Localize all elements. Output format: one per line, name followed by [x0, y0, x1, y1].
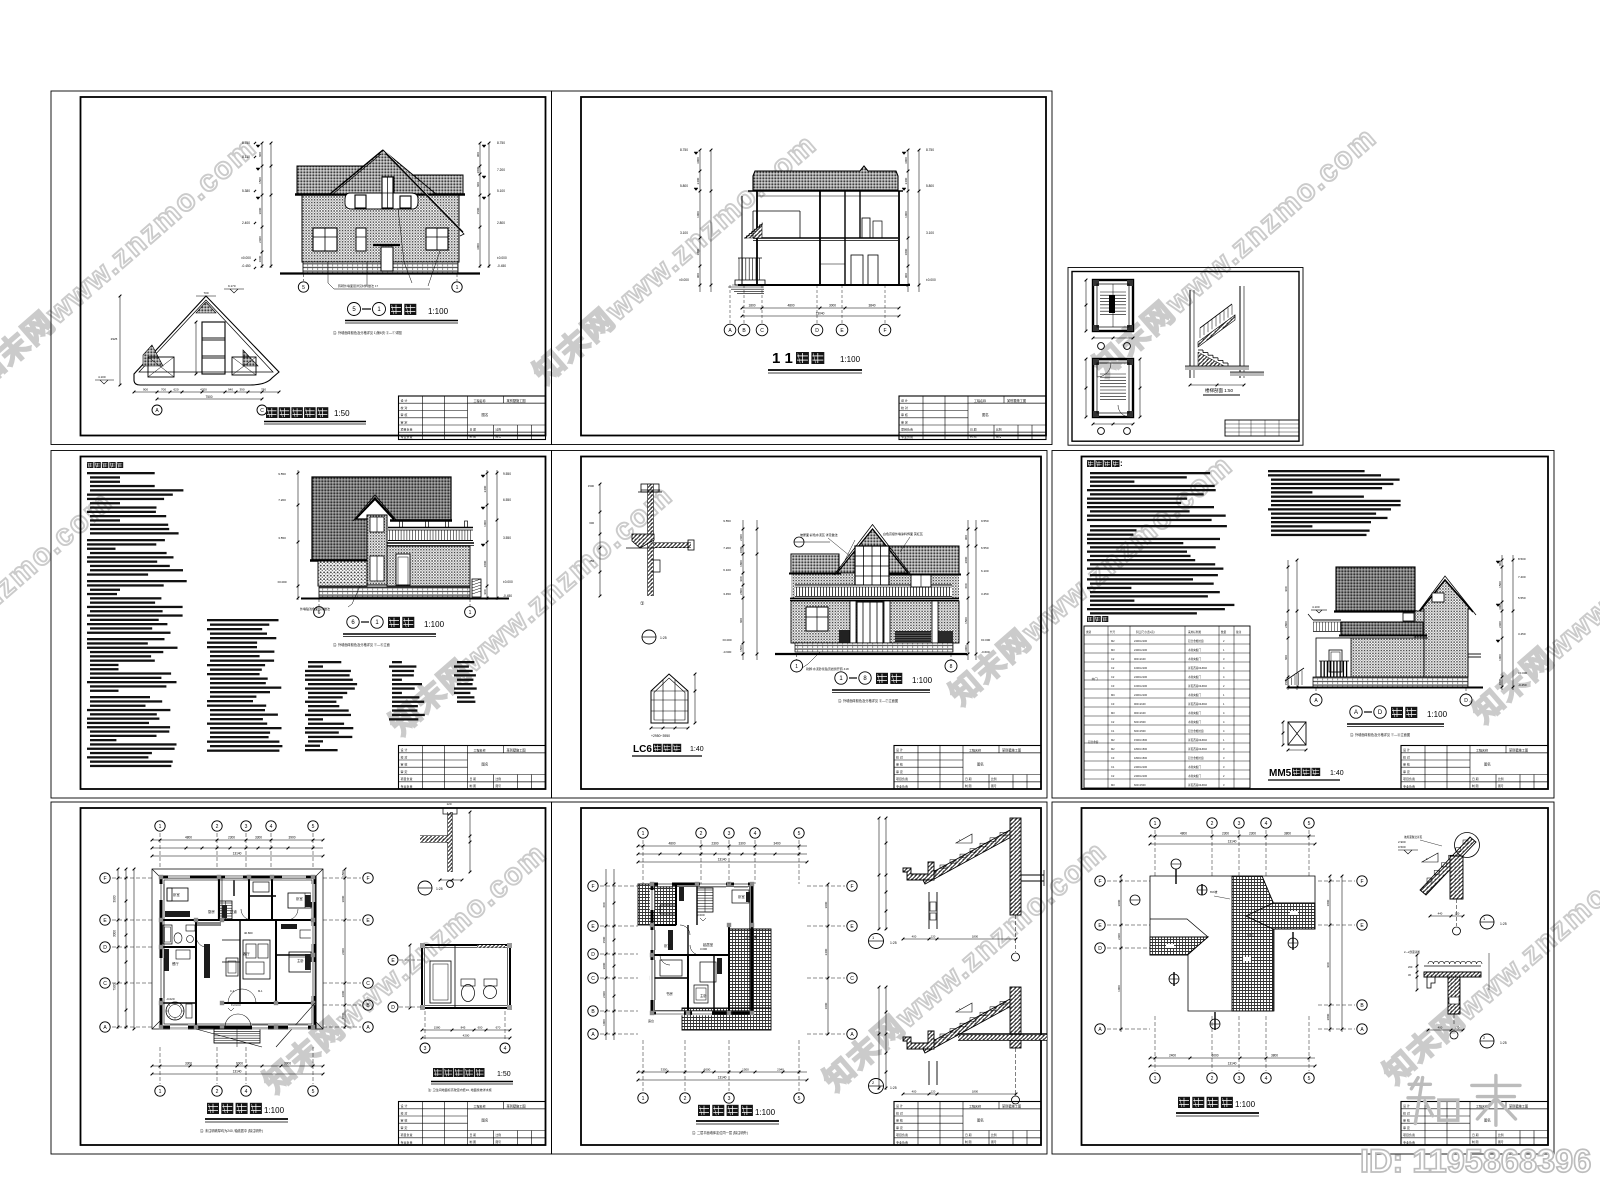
svg-text:-0.450: -0.450 — [241, 264, 250, 268]
svg-text:2800: 2800 — [1284, 621, 1288, 628]
svg-text:3300: 3300 — [738, 842, 745, 846]
svg-text:+2950~3950: +2950~3950 — [651, 734, 670, 738]
svg-text:起居室: 起居室 — [703, 942, 714, 947]
svg-text:3000: 3000 — [113, 930, 117, 937]
svg-text:D: D — [1464, 698, 1468, 704]
svg-text:审 核: 审 核 — [401, 412, 408, 417]
svg-text:1000: 1000 — [602, 1019, 606, 1026]
svg-text:木门: 木门 — [1092, 676, 1098, 681]
svg-text:1000: 1000 — [341, 990, 345, 997]
svg-text:9.550: 9.550 — [981, 519, 989, 523]
svg-text:2800: 2800 — [739, 588, 743, 595]
svg-text:审 定: 审 定 — [896, 769, 903, 774]
svg-text:1: 1 — [159, 1089, 162, 1095]
svg-text:1: 1 — [159, 824, 162, 830]
svg-text:3.450: 3.450 — [1518, 632, 1526, 636]
svg-text:5: 5 — [312, 1089, 315, 1095]
svg-text:±0.000: ±0.000 — [1518, 671, 1527, 675]
svg-text:1580: 1580 — [434, 1026, 441, 1030]
svg-text:3: 3 — [424, 1046, 427, 1052]
svg-text:3900: 3900 — [113, 895, 117, 902]
svg-text:项目负责: 项目负责 — [901, 427, 913, 432]
svg-text:砖砌外墙面层详见材料做法 17: 砖砌外墙面层详见材料做法 17 — [338, 283, 379, 288]
svg-text:工程名称: 工程名称 — [474, 1103, 486, 1108]
svg-text:比例: 比例 — [996, 427, 1002, 431]
svg-text:1:25: 1:25 — [1500, 922, 1507, 926]
svg-text:C3: C3 — [1111, 684, 1115, 688]
svg-text:120: 120 — [931, 1090, 936, 1094]
svg-text:铝合金推拉窗: 铝合金推拉窗 — [1188, 639, 1204, 643]
svg-text:2: 2 — [216, 1089, 219, 1095]
svg-text:详见西南04J602: 详见西南04J602 — [1188, 666, 1207, 670]
svg-text:8: 8 — [950, 664, 953, 670]
svg-text:±0.000: ±0.000 — [679, 278, 689, 282]
svg-text:详见西南04J602: 详见西南04J602 — [1188, 747, 1207, 751]
svg-text:440: 440 — [1438, 912, 1443, 916]
svg-text:6000: 6000 — [1211, 1054, 1218, 1058]
svg-text:外墙贴浅色面砖详做法: 外墙贴浅色面砖详做法 — [300, 606, 330, 611]
svg-text:3000: 3000 — [964, 645, 968, 652]
svg-text:3.100: 3.100 — [680, 231, 688, 235]
svg-text:2400×2100: 2400×2100 — [1134, 639, 1148, 643]
svg-text:数量: 数量 — [1221, 630, 1227, 634]
svg-text:F: F — [366, 876, 369, 882]
svg-text:6.550: 6.550 — [981, 546, 989, 550]
svg-text:1800: 1800 — [739, 560, 743, 567]
svg-text:MM5: MM5 — [1269, 768, 1292, 779]
svg-text:比例: 比例 — [1498, 777, 1504, 781]
svg-text:C2: C2 — [1111, 666, 1115, 670]
svg-text:1:100: 1:100 — [264, 1106, 285, 1115]
svg-text:餐厅: 餐厅 — [172, 961, 179, 966]
svg-text:7900: 7900 — [113, 983, 117, 990]
svg-text:项目负责: 项目负责 — [1403, 1132, 1415, 1137]
svg-text:2800: 2800 — [476, 166, 480, 173]
svg-text:2300: 2300 — [1249, 832, 1256, 836]
svg-text:3840: 3840 — [868, 304, 875, 308]
svg-text:±0.000: ±0.000 — [722, 638, 731, 642]
svg-text:2400: 2400 — [483, 485, 487, 492]
svg-text:某别墅施工图: 某别墅施工图 — [507, 398, 526, 403]
svg-text:620: 620 — [173, 388, 178, 392]
svg-text:图名: 图名 — [977, 1117, 984, 1122]
svg-text:专业负责: 专业负责 — [901, 434, 913, 439]
svg-text:1800: 1800 — [1326, 899, 1330, 906]
svg-text:设 计: 设 计 — [896, 747, 903, 752]
svg-text:1: 1 — [795, 664, 798, 670]
svg-text:780: 780 — [261, 388, 266, 392]
svg-text:2: 2 — [216, 824, 219, 830]
svg-text:上人屋面: 上人屋面 — [745, 934, 757, 939]
svg-text:D: D — [1098, 946, 1102, 952]
svg-text:1800×1500: 1800×1500 — [1134, 747, 1148, 751]
svg-text:3400: 3400 — [773, 842, 780, 846]
svg-text:类别: 类别 — [1086, 630, 1092, 634]
svg-text:900: 900 — [739, 576, 743, 581]
svg-text:过道: 过道 — [230, 909, 237, 914]
svg-text:详见西南04J602: 详见西南04J602 — [1188, 738, 1207, 742]
svg-text:M-1: M-1 — [258, 989, 263, 993]
svg-text:详见西南04J602: 详见西南04J602 — [1188, 783, 1207, 787]
svg-text:木制夹板门: 木制夹板门 — [1188, 711, 1201, 715]
svg-text:项目负责: 项目负责 — [401, 1132, 413, 1137]
svg-text:专业负责: 专业负责 — [401, 783, 413, 788]
svg-text:设 计: 设 计 — [1403, 747, 1410, 752]
svg-text:图号: 图号 — [496, 784, 502, 788]
svg-text:C: C — [591, 976, 595, 982]
svg-text:13140: 13140 — [718, 858, 727, 862]
svg-text:校 对: 校 对 — [901, 405, 908, 410]
svg-text:注: 外墙面砖颜色及分格详见 ①—⑧立面图: 注: 外墙面砖颜色及分格详见 ①—⑧立面图 — [1350, 732, 1410, 737]
svg-text:2400: 2400 — [258, 236, 262, 243]
svg-text:3.450: 3.450 — [723, 592, 731, 596]
svg-text:5: 5 — [312, 824, 315, 830]
svg-text:7.200: 7.200 — [497, 168, 505, 172]
svg-text:图号: 图号 — [991, 784, 997, 788]
svg-text:校 对: 校 对 — [1403, 1110, 1410, 1115]
svg-text:F: F — [1098, 879, 1101, 885]
svg-text:M2: M2 — [1111, 738, 1115, 742]
svg-text:图名: 图名 — [482, 761, 489, 766]
svg-text:1800: 1800 — [904, 248, 908, 255]
svg-text:200: 200 — [1408, 965, 1413, 969]
svg-text:2400: 2400 — [904, 177, 908, 184]
svg-text:代号: 代号 — [1110, 630, 1116, 634]
svg-text:图名: 图名 — [482, 412, 489, 417]
svg-text:1800: 1800 — [748, 304, 755, 308]
svg-text:审 核: 审 核 — [896, 762, 903, 767]
svg-text:工程名称: 工程名称 — [1476, 747, 1488, 752]
svg-text:1: 1 — [1154, 1076, 1157, 1082]
svg-text:审 定: 审 定 — [1403, 1125, 1410, 1130]
svg-text:某别墅施工图: 某别墅施工图 — [1007, 398, 1026, 403]
svg-text:600: 600 — [589, 521, 594, 525]
svg-text:6.100: 6.100 — [723, 568, 731, 572]
svg-text:厨房: 厨房 — [208, 909, 215, 914]
svg-text:图名: 图名 — [977, 761, 984, 766]
svg-text:3.550: 3.550 — [503, 536, 511, 540]
svg-text:900: 900 — [696, 273, 700, 278]
svg-text:3: 3 — [245, 824, 248, 830]
svg-text:下水口: 下水口 — [1246, 933, 1255, 937]
svg-text:1000: 1000 — [483, 520, 487, 527]
svg-text:校 对: 校 对 — [401, 1110, 408, 1115]
svg-text:4.100: 4.100 — [98, 375, 106, 379]
svg-text:7500: 7500 — [205, 395, 212, 399]
svg-text:8.500: 8.500 — [1518, 557, 1526, 561]
svg-text:审 定: 审 定 — [1403, 769, 1410, 774]
svg-text:1:100: 1:100 — [912, 676, 933, 685]
svg-text:2400×2100: 2400×2100 — [1134, 675, 1148, 679]
svg-text:审 核: 审 核 — [901, 412, 908, 417]
svg-text:1:40: 1:40 — [690, 746, 704, 753]
svg-text:400: 400 — [1438, 1026, 1443, 1030]
svg-text:-0.450: -0.450 — [503, 594, 512, 598]
svg-text:日 期: 日 期 — [470, 777, 477, 781]
svg-text:3900: 3900 — [284, 1062, 291, 1066]
svg-text:1000×2100: 1000×2100 — [1134, 684, 1148, 688]
svg-text:600×1500: 600×1500 — [1134, 729, 1146, 733]
svg-text:120: 120 — [1455, 912, 1460, 916]
svg-text:设 计: 设 计 — [401, 398, 408, 403]
svg-text:审 定: 审 定 — [901, 419, 908, 424]
svg-text:校 对: 校 对 — [896, 1110, 903, 1115]
svg-text:1:25: 1:25 — [890, 1086, 897, 1090]
svg-text:C2: C2 — [1111, 657, 1115, 661]
svg-text:比例: 比例 — [496, 1133, 502, 1137]
svg-text:制 图: 制 图 — [470, 784, 477, 788]
svg-text:1800: 1800 — [1498, 678, 1502, 685]
svg-text:1: 1 — [642, 831, 645, 837]
svg-text:D: D — [391, 1005, 395, 1011]
svg-text:1500: 1500 — [258, 177, 262, 184]
svg-text:审 核: 审 核 — [401, 762, 408, 767]
svg-text:审 定: 审 定 — [896, 1125, 903, 1130]
svg-text:C: C — [260, 408, 264, 414]
svg-text:1000: 1000 — [904, 211, 908, 218]
svg-text:3000: 3000 — [1117, 899, 1121, 906]
svg-text:卧室: 卧室 — [296, 896, 303, 901]
svg-text:1: 1 — [1154, 821, 1157, 827]
svg-text:1:100: 1:100 — [1235, 1100, 1256, 1109]
svg-text:6.100: 6.100 — [981, 569, 989, 573]
svg-text:校 对: 校 对 — [1403, 754, 1410, 759]
svg-text:1800: 1800 — [972, 935, 979, 939]
svg-text:某别墅施工图: 某别墅施工图 — [1509, 747, 1528, 752]
svg-text:LC6: LC6 — [633, 744, 652, 755]
svg-text:1:100: 1:100 — [755, 1108, 776, 1117]
svg-text:3000: 3000 — [696, 157, 700, 164]
svg-text:设 计: 设 计 — [901, 398, 908, 403]
svg-text:项目负责: 项目负责 — [401, 427, 413, 432]
svg-text:1500: 1500 — [739, 645, 743, 652]
svg-text:13140: 13140 — [1228, 840, 1237, 844]
svg-text:670: 670 — [496, 1026, 501, 1030]
svg-text:C3: C3 — [1111, 702, 1115, 706]
svg-text:4800: 4800 — [787, 304, 794, 308]
svg-text:1500×1500: 1500×1500 — [1134, 738, 1148, 742]
svg-text:4.100: 4.100 — [1312, 605, 1320, 609]
svg-text:8.750: 8.750 — [242, 141, 250, 145]
svg-text:1500: 1500 — [588, 484, 595, 488]
svg-text:注: 外墙面砖颜色及分格详见 ②—⑦立面图: 注: 外墙面砖颜色及分格详见 ②—⑦立面图 — [838, 698, 898, 703]
svg-text:铝合金窗: 铝合金窗 — [1088, 740, 1099, 744]
svg-text:9.550: 9.550 — [503, 472, 511, 476]
svg-text:2300: 2300 — [228, 836, 235, 840]
svg-text::: : — [1120, 459, 1123, 468]
svg-text:D: D — [591, 952, 595, 958]
svg-text:C1: C1 — [1111, 729, 1115, 733]
svg-text:审 定: 审 定 — [401, 419, 408, 424]
svg-text:校 对: 校 对 — [896, 754, 903, 759]
svg-text:1:25: 1:25 — [1500, 1041, 1507, 1045]
svg-text:C2: C2 — [1111, 675, 1115, 679]
svg-text:±0.000: ±0.000 — [231, 1003, 241, 1007]
svg-text:制 图: 制 图 — [970, 435, 977, 439]
svg-text:3.000: 3.000 — [700, 947, 707, 951]
svg-text:9.550: 9.550 — [723, 519, 731, 523]
svg-text:审 核: 审 核 — [1403, 1118, 1410, 1123]
svg-text:勒脚:水泥砂浆贴页岩劈开砖 418: 勒脚:水泥砂浆贴页岩劈开砖 418 — [806, 666, 849, 671]
svg-text:F: F — [850, 884, 853, 890]
svg-text:5: 5 — [1308, 1076, 1311, 1082]
svg-text:图号: 图号 — [496, 1140, 502, 1144]
svg-text:图号: 图号 — [991, 1140, 997, 1144]
svg-text:9.170: 9.170 — [228, 284, 236, 288]
svg-text:900: 900 — [1326, 962, 1330, 967]
svg-text:900: 900 — [483, 589, 487, 594]
svg-text:工程名称: 工程名称 — [474, 747, 486, 752]
svg-text:2400: 2400 — [739, 534, 743, 541]
svg-text:2925: 2925 — [111, 337, 118, 341]
svg-text:4800: 4800 — [185, 836, 192, 840]
svg-text:13140: 13140 — [233, 1070, 242, 1074]
svg-text:比例: 比例 — [496, 777, 502, 781]
svg-text:注: 外墙面砖颜色及分格详见 ①—⑥立面: 注: 外墙面砖颜色及分格详见 ①—⑥立面 — [333, 642, 390, 647]
svg-text:某别墅施工图: 某别墅施工图 — [1002, 1103, 1021, 1108]
svg-text:图名: 图名 — [982, 412, 989, 417]
svg-text:日 期: 日 期 — [1472, 777, 1479, 781]
svg-text:某别墅施工图: 某别墅施工图 — [1509, 1103, 1528, 1108]
svg-text:比例: 比例 — [991, 777, 997, 781]
svg-text:D: D — [815, 328, 819, 334]
svg-text:3300: 3300 — [185, 1062, 192, 1066]
svg-text:注: 外墙面砖颜色及分格详见 1)第6页 ②—①详图: 注: 外墙面砖颜色及分格详见 1)第6页 ②—①详图 — [333, 330, 402, 335]
svg-text:1800: 1800 — [696, 248, 700, 255]
svg-text:600: 600 — [602, 902, 606, 907]
svg-text:5.380: 5.380 — [242, 189, 250, 193]
svg-text:M3: M3 — [1111, 711, 1115, 715]
svg-text:600: 600 — [476, 182, 480, 187]
svg-text:制 图: 制 图 — [470, 435, 477, 439]
svg-text:-0.600: -0.600 — [981, 650, 990, 654]
svg-text:2—2剖面详图: 2—2剖面详图 — [1404, 950, 1420, 954]
svg-text:工程名称: 工程名称 — [969, 1103, 981, 1108]
svg-text:600: 600 — [478, 1026, 483, 1030]
svg-text:比例: 比例 — [991, 1133, 997, 1137]
svg-text:坡屋面做法详见: 坡屋面做法详见 — [1404, 835, 1423, 839]
svg-text:900: 900 — [476, 152, 480, 157]
svg-text:4: 4 — [504, 1046, 507, 1052]
svg-text:2300: 2300 — [1222, 832, 1229, 836]
svg-text:2.400: 2.400 — [242, 221, 250, 225]
svg-text:2.800: 2.800 — [497, 221, 505, 225]
svg-text:2400×2100: 2400×2100 — [1134, 765, 1148, 769]
svg-text:MC: MC — [1111, 693, 1115, 697]
svg-text:-0.450: -0.450 — [1518, 683, 1527, 687]
svg-text:1500: 1500 — [341, 870, 345, 877]
svg-text:木制夹板门: 木制夹板门 — [1188, 774, 1201, 778]
svg-text:日 期: 日 期 — [1472, 1133, 1479, 1137]
svg-text:1000: 1000 — [739, 546, 743, 553]
svg-text:7.400: 7.400 — [1518, 575, 1526, 579]
svg-text:2: 2 — [1211, 821, 1214, 827]
svg-text:项目负责: 项目负责 — [401, 776, 413, 781]
svg-text:1 1: 1 1 — [772, 350, 793, 367]
svg-text:700: 700 — [161, 388, 166, 392]
svg-text:日 期: 日 期 — [470, 1133, 477, 1137]
svg-text:3000: 3000 — [602, 962, 606, 969]
svg-text:6%坡: 6%坡 — [1210, 889, 1217, 894]
svg-text:制 图: 制 图 — [965, 784, 972, 788]
svg-text:600: 600 — [964, 583, 968, 588]
svg-text:专业负责: 专业负责 — [896, 1139, 908, 1144]
svg-text:专业负责: 专业负责 — [896, 783, 908, 788]
svg-text:C-2: C-2 — [230, 989, 235, 993]
svg-text:1:25: 1:25 — [660, 636, 667, 640]
svg-text:比例: 比例 — [496, 427, 502, 431]
svg-text:1:40: 1:40 — [1330, 770, 1344, 777]
svg-text:3000: 3000 — [904, 157, 908, 164]
svg-text:F: F — [1360, 879, 1363, 885]
svg-text:5.800: 5.800 — [680, 184, 688, 188]
svg-text:1500: 1500 — [602, 936, 606, 943]
svg-text:3300: 3300 — [255, 836, 262, 840]
svg-text:1500: 1500 — [742, 1068, 749, 1072]
svg-text:楼梯剖面 1:50: 楼梯剖面 1:50 — [1205, 387, 1234, 394]
svg-text:备注: 备注 — [1236, 630, 1242, 634]
svg-text:3: 3 — [728, 831, 731, 837]
svg-text:900×2100: 900×2100 — [1134, 711, 1146, 715]
svg-text:项目负责: 项目负责 — [896, 776, 908, 781]
svg-text:120: 120 — [446, 802, 451, 806]
svg-text:1000×2100: 1000×2100 — [1134, 666, 1148, 670]
svg-text:8.750: 8.750 — [680, 148, 688, 152]
svg-text:卧室: 卧室 — [173, 892, 180, 897]
svg-text:工程名称: 工程名称 — [474, 398, 486, 403]
svg-text:4: 4 — [245, 1089, 248, 1095]
svg-text:1: 1 — [456, 285, 459, 291]
svg-text:木制夹板门: 木制夹板门 — [1188, 765, 1201, 769]
svg-text:4: 4 — [1265, 821, 1268, 827]
svg-text:审 核: 审 核 — [401, 1118, 408, 1123]
svg-text:5.800: 5.800 — [926, 184, 934, 188]
svg-text:900×2100: 900×2100 — [1134, 702, 1146, 706]
svg-text:1800: 1800 — [341, 1012, 345, 1019]
svg-text:9.550: 9.550 — [278, 472, 286, 476]
svg-text:C1: C1 — [1111, 765, 1115, 769]
svg-text:日 期: 日 期 — [470, 427, 477, 431]
svg-text:2040: 2040 — [777, 1068, 784, 1072]
svg-text:13140: 13140 — [718, 1076, 727, 1080]
svg-text:8.110: 8.110 — [242, 155, 250, 159]
svg-text:工程名称: 工程名称 — [974, 398, 986, 403]
svg-text:比例: 比例 — [1498, 1133, 1504, 1137]
svg-text:±0.000: ±0.000 — [497, 256, 507, 260]
svg-text:900: 900 — [1284, 586, 1288, 591]
svg-text:3: 3 — [728, 1096, 731, 1102]
svg-text:3800: 3800 — [1284, 832, 1291, 836]
svg-text:1:25: 1:25 — [890, 941, 897, 945]
svg-text:F: F — [591, 884, 594, 890]
svg-text:1:50: 1:50 — [497, 1071, 511, 1078]
svg-text:5.100: 5.100 — [497, 189, 505, 193]
svg-text:5: 5 — [798, 831, 801, 837]
svg-text:6000: 6000 — [236, 1062, 243, 1066]
svg-text:工程名称: 工程名称 — [969, 747, 981, 752]
svg-text:专业负责: 专业负责 — [1403, 783, 1415, 788]
svg-text:书房: 书房 — [666, 991, 673, 996]
svg-text:1800×1500: 1800×1500 — [1134, 756, 1148, 760]
svg-text:M3: M3 — [1111, 783, 1115, 787]
svg-text:3.100: 3.100 — [926, 231, 934, 235]
svg-text:6000: 6000 — [704, 1068, 711, 1072]
svg-text:制 图: 制 图 — [965, 1140, 972, 1144]
svg-text:900×2100: 900×2100 — [1134, 657, 1146, 661]
svg-text:1500: 1500 — [964, 617, 968, 624]
svg-text:1000: 1000 — [1498, 654, 1502, 661]
svg-text:3350: 3350 — [661, 1068, 668, 1072]
